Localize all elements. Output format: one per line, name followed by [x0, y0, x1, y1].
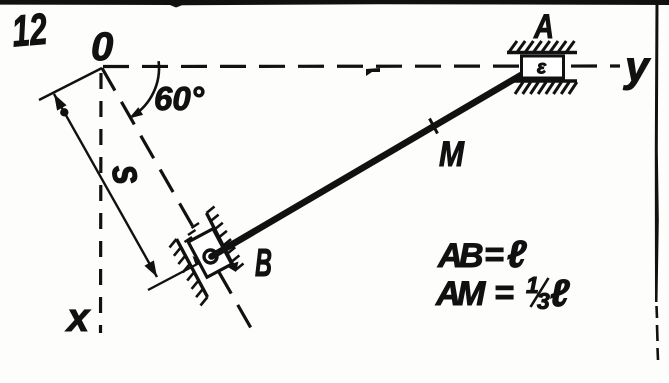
svg-text:60°: 60°: [154, 80, 205, 117]
wire slider A top rail with hatching: [507, 51, 577, 55]
wire s dimension line with arrows: [54, 94, 157, 277]
component rod AB: [212, 71, 529, 257]
component slider block A: [522, 56, 564, 78]
svg-text:0: 0: [91, 25, 113, 69]
wire slider B guide rail upper-right with hatching: [207, 213, 236, 270]
svg-text:AM=: AM=: [435, 274, 514, 313]
component slider block B: [188, 229, 232, 277]
svg-text:y: y: [623, 43, 651, 91]
node point M tick on rod: [430, 119, 438, 134]
wire slider A bottom rail with hatching: [513, 79, 577, 83]
svg-text:B: B: [255, 242, 272, 285]
wire right border line: [655, 3, 659, 302]
node pin joint at B: [204, 250, 217, 263]
node 60-degree angle arc: [132, 61, 159, 116]
svg-text:AB=ℓ: AB=ℓ: [437, 234, 527, 276]
wire dashed incline line O to B: [102, 68, 254, 334]
wire slider B guide rail lower-left with hatching: [177, 239, 208, 297]
wire x-axis dashed line: [99, 73, 103, 333]
wire hatching upper-left of slider B: [192, 223, 200, 228]
wire small tick right of slider B: [226, 262, 239, 273]
svg-text:ε: ε: [537, 58, 547, 79]
wire extension line near B: [148, 261, 203, 290]
wire top border line: [0, 0, 669, 8]
svg-text:ℓ: ℓ: [550, 273, 570, 315]
wire extension line from O: [39, 68, 102, 100]
svg-text:M: M: [439, 135, 465, 174]
wire ink blob on y-axis dash: [366, 68, 380, 76]
svg-text:x: x: [65, 296, 91, 340]
wire small tick left of slider B: [193, 256, 204, 265]
svg-text:12: 12: [10, 5, 50, 57]
svg-text:3: 3: [537, 288, 550, 314]
wire y-axis dashed line: [103, 64, 620, 68]
svg-text:A: A: [533, 8, 554, 46]
